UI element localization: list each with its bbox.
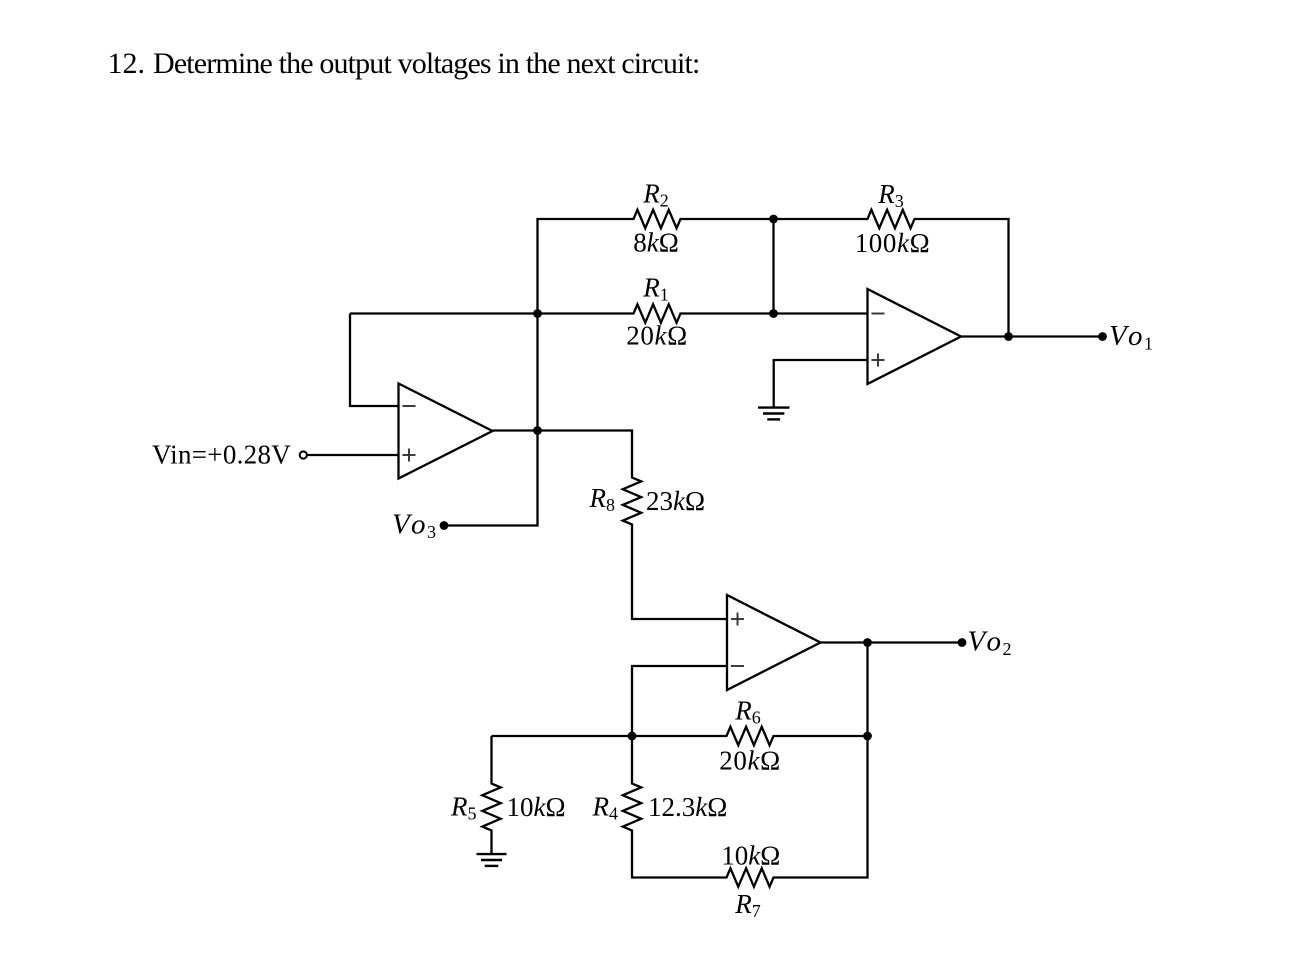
svg-text:20kΩ: 20kΩ — [626, 321, 687, 351]
svg-text:Determine the output voltages: Determine the output voltages in the nex… — [153, 47, 700, 80]
svg-text:100kΩ: 100kΩ — [855, 228, 931, 258]
svg-text:10kΩ: 10kΩ — [507, 792, 566, 822]
svg-text:12.: 12. — [108, 47, 146, 80]
svg-text:23kΩ: 23kΩ — [646, 486, 705, 516]
svg-text:12.3kΩ: 12.3kΩ — [648, 792, 727, 822]
svg-text:20kΩ: 20kΩ — [719, 746, 780, 776]
svg-text:8kΩ: 8kΩ — [633, 228, 679, 258]
svg-text:10kΩ: 10kΩ — [721, 841, 780, 871]
svg-text:Vin=+0.28V: Vin=+0.28V — [152, 440, 291, 470]
